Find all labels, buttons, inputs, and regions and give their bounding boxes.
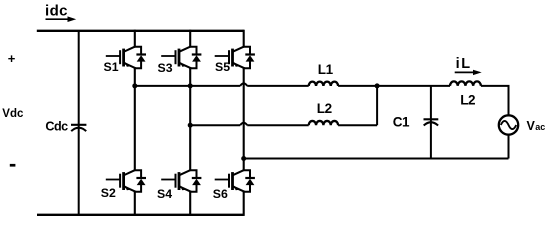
svg-text:iL: iL [456,56,472,72]
wire inverter leg 2 upper [189,30,191,47]
wire phase line A (node a to filter) [135,83,309,86]
label iL [456,56,472,72]
svg-text:S1: S1 [104,60,119,74]
transistor S1 (IGBT with antiparallel diode) [106,47,146,69]
label Cdc [45,120,68,134]
inductor L2 (grid side) [450,81,481,86]
transistor S6 (IGBT with antiparallel diode) [215,170,255,192]
arrow iL current direction [455,70,482,75]
svg-text:Cdc: Cdc [45,120,68,134]
transistor S2 (IGBT with antiparallel diode) [106,170,146,192]
junction node leg2-lineA [188,83,193,88]
svg-text:S4: S4 [157,187,172,201]
label S6 [213,187,228,201]
wire L1 to node [338,85,377,87]
wire node to C1 tap [377,85,450,87]
junction node a (leg1-lineA) [132,83,137,88]
svg-text:idc: idc [45,3,68,20]
svg-text:L2: L2 [317,101,332,116]
ac source Vac [499,115,518,134]
svg-text:ac: ac [535,122,545,132]
svg-text:+: + [8,51,16,66]
wire riser joining line B to line A [376,86,378,125]
wire L2 to riser [338,124,377,126]
label + (Vdc positive) [8,51,16,66]
wire inverter leg 1 lower [134,192,136,216]
junction node b (leg2-lineB) [188,123,193,128]
label C1 [393,114,410,129]
wire phase line B (node b to L2) [190,123,309,126]
svg-text:S5: S5 [215,60,230,74]
label L2 (grid side) [460,92,475,107]
svg-text:S6: S6 [213,187,228,201]
wire Cdc branch [78,31,80,215]
label Vdc [2,108,24,120]
label S2 [101,186,116,200]
label S4 [157,187,172,201]
junction node filter junction [375,83,380,88]
svg-text:S3: S3 [158,61,173,75]
label S3 [158,61,173,75]
wire inverter leg 2 lower [189,192,191,216]
label L2 (inverter side) [317,101,332,116]
wire inverter leg 1 upper [134,30,136,47]
junction node c (leg3-lineC) [241,156,246,161]
label Vac [527,119,546,133]
wire inverter leg 2 middle [189,68,191,170]
inductor L2 (inverter side) [309,121,338,125]
svg-text:L1: L1 [318,62,334,77]
svg-text:V: V [527,119,536,133]
wire Vac to bottom line [508,135,510,159]
wire inverter leg 3 upper [243,30,245,47]
svg-text:Vdc: Vdc [2,108,24,120]
wire inverter leg 3 middle [243,68,245,170]
wire phase line C (return) [244,158,509,160]
label idc [45,3,68,20]
wire bottom DC rail [37,214,244,216]
transistor S4 (IGBT with antiparallel diode) [161,170,201,192]
wire inverter leg 3 lower [243,192,245,216]
inductor L1 [309,82,338,86]
transistor S3 (IGBT with antiparallel diode) [161,47,201,69]
svg-text:S2: S2 [101,186,116,200]
wire top DC rail [37,30,244,32]
arrow idc current direction [46,16,77,22]
label S5 [215,60,230,74]
transistor S5 (IGBT with antiparallel diode) [215,47,255,69]
svg-text:L2: L2 [460,92,475,107]
capacitor Cdc [71,125,86,131]
label - (Vdc negative) [10,164,16,167]
capacitor C1 [424,119,439,125]
wire L2 to Vac [481,86,509,115]
label S1 [104,60,119,74]
capacitor C1 branch wire [430,86,432,159]
wire inverter leg 1 middle [134,68,136,170]
label L1 [318,62,334,77]
svg-text:C1: C1 [393,114,410,129]
